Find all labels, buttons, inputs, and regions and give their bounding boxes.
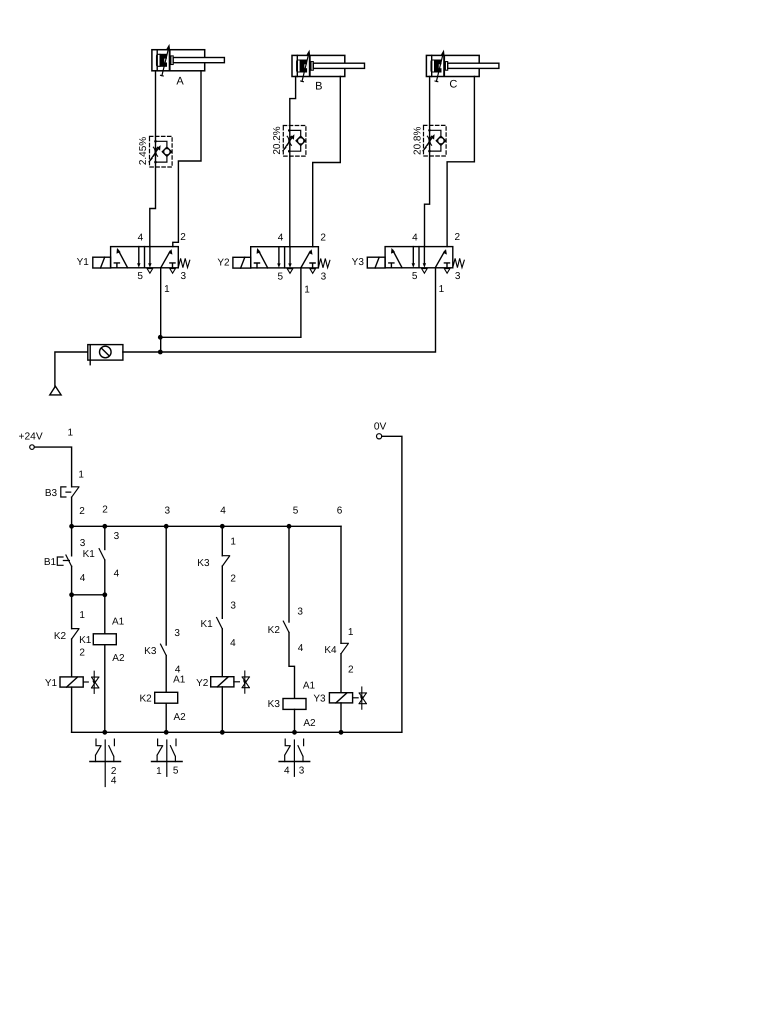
svg-text:4: 4 <box>278 232 284 243</box>
Y1 valve cross-reference <box>92 671 99 693</box>
svg-text:4: 4 <box>138 232 144 243</box>
wire Y2 to bottom bus <box>221 687 223 732</box>
Y3 link tick <box>353 697 359 699</box>
svg-text:4: 4 <box>111 776 117 787</box>
flow control valve B <box>283 126 306 157</box>
bus junction nodes <box>69 524 291 529</box>
svg-text:2.45%: 2.45% <box>138 137 149 165</box>
svg-text:3: 3 <box>299 766 305 777</box>
svg-text:1: 1 <box>230 537 236 548</box>
+24V terminal <box>19 432 43 450</box>
svg-text:K4: K4 <box>324 645 337 656</box>
wire contact to coil <box>165 656 167 693</box>
svg-text:4: 4 <box>284 766 290 777</box>
wire Y2 port 1 to manifold <box>160 268 301 337</box>
junction node <box>69 592 74 597</box>
svg-text:4: 4 <box>412 232 418 243</box>
svg-text:K2: K2 <box>54 631 67 642</box>
0V terminal <box>374 421 387 439</box>
svg-text:3: 3 <box>181 271 187 282</box>
svg-text:B1: B1 <box>44 557 57 568</box>
svg-text:B3: B3 <box>45 488 58 499</box>
wire Y3 port 1 to supply line <box>123 268 436 352</box>
wire K1 contact to coil <box>104 560 106 634</box>
svg-text:5: 5 <box>278 271 284 282</box>
svg-text:1: 1 <box>68 428 74 439</box>
svg-text:Y1: Y1 <box>45 678 58 689</box>
svg-text:2: 2 <box>180 232 186 243</box>
svg-text:2: 2 <box>79 647 85 658</box>
svg-text:Y1: Y1 <box>77 257 90 268</box>
svg-text:K3: K3 <box>197 558 210 569</box>
wire K4 to Y3 coil <box>340 654 342 693</box>
valve Y1 <box>77 232 190 295</box>
svg-text:C: C <box>449 78 457 90</box>
contact image K3 <box>279 739 310 777</box>
wire K1 to Y2 coil <box>221 629 223 677</box>
air source triangle <box>50 386 61 395</box>
wire bus to K3 contact <box>165 526 167 645</box>
svg-text:A2: A2 <box>112 653 125 664</box>
relay coil K2 <box>155 692 178 703</box>
svg-text:1: 1 <box>304 284 310 295</box>
svg-text:3: 3 <box>174 628 180 639</box>
wire Y1 port 1 down <box>160 268 162 352</box>
wire bus corner to K4 <box>340 526 342 643</box>
svg-text:1: 1 <box>79 610 85 621</box>
Y1 link tick <box>83 681 88 683</box>
svg-text:2: 2 <box>320 232 326 243</box>
svg-text:2: 2 <box>230 574 236 585</box>
wire B right port to Y2 port 2 <box>313 77 341 247</box>
svg-text:A2: A2 <box>173 712 186 723</box>
valve Y2 <box>217 232 330 295</box>
junction node <box>102 592 107 597</box>
svg-text:3: 3 <box>80 538 86 549</box>
svg-text:4: 4 <box>114 569 120 580</box>
wire K2 to Y1 coil <box>71 639 73 677</box>
svg-text:K1: K1 <box>83 549 96 560</box>
svg-text:1: 1 <box>348 627 354 638</box>
wire C right port to Y3 port 2 <box>447 77 474 247</box>
wire A right port to Y1 port 2 <box>173 71 201 247</box>
svg-text:5: 5 <box>293 505 299 516</box>
svg-text:20.2%: 20.2% <box>272 126 283 154</box>
wire bus to K2 contact <box>288 526 290 622</box>
svg-text:2: 2 <box>348 665 354 676</box>
svg-text:A1: A1 <box>303 681 316 692</box>
svg-text:K2: K2 <box>268 625 281 636</box>
wire A left port to flow valve to Y1 port 4 <box>150 71 156 247</box>
svg-text:Y3: Y3 <box>313 694 326 705</box>
relay coil K3 <box>283 699 306 710</box>
solenoid coil Y3 <box>329 693 352 703</box>
svg-text:K1: K1 <box>200 619 213 630</box>
bottom bus junction nodes <box>102 730 343 735</box>
svg-text:6: 6 <box>337 505 343 516</box>
contact K3 (NO) <box>161 644 167 655</box>
limit switch B1 (NO) <box>66 555 72 566</box>
cylinder C <box>426 50 499 82</box>
B1 actuator <box>57 557 69 565</box>
flow control valve C <box>423 125 446 156</box>
net labels above bus <box>79 505 343 517</box>
svg-text:Y3: Y3 <box>352 257 365 268</box>
svg-text:3: 3 <box>230 601 236 612</box>
svg-text:1: 1 <box>78 469 84 480</box>
svg-text:3: 3 <box>165 505 171 516</box>
contact K1 (NO) <box>217 618 223 629</box>
cylinder A <box>152 44 225 76</box>
svg-text:K3: K3 <box>268 699 281 710</box>
svg-text:5: 5 <box>412 271 418 282</box>
Y2 link tick <box>234 681 240 683</box>
svg-text:A: A <box>176 75 184 87</box>
wire bus to K3 NC <box>221 526 223 555</box>
svg-text:5: 5 <box>173 766 179 777</box>
wire coil to bottom bus <box>294 709 296 732</box>
svg-text:+24V: +24V <box>19 432 43 443</box>
svg-text:2: 2 <box>455 232 461 243</box>
wire C left port to flow valve to Y3 port 4 <box>425 77 430 247</box>
svg-text:2: 2 <box>79 506 85 517</box>
svg-text:Y2: Y2 <box>196 678 209 689</box>
svg-text:20.8%: 20.8% <box>412 127 423 155</box>
junction node <box>158 350 163 355</box>
Y3 valve cross-reference <box>359 687 366 709</box>
svg-text:Y2: Y2 <box>217 257 230 268</box>
contact K2 (NO) <box>283 621 289 632</box>
junction node <box>158 335 163 340</box>
svg-text:1: 1 <box>156 766 162 777</box>
wire B1 to junction <box>71 566 73 595</box>
limit switch B3 (NC) <box>72 487 79 497</box>
svg-text:5: 5 <box>137 271 143 282</box>
svg-text:3: 3 <box>297 607 303 618</box>
svg-text:A1: A1 <box>173 675 186 686</box>
cylinder B <box>292 50 365 82</box>
wire bus to K1 contact <box>104 526 106 549</box>
svg-text:0V: 0V <box>374 421 387 432</box>
svg-text:3: 3 <box>321 271 327 282</box>
wire supply to source <box>55 352 88 387</box>
wire coil to bottom bus <box>165 703 167 732</box>
relay coil K1 <box>93 634 116 645</box>
B3 actuator <box>61 487 71 497</box>
svg-text:3: 3 <box>114 531 120 542</box>
svg-text:4: 4 <box>80 573 86 584</box>
contact K1 (NO) <box>99 549 105 560</box>
wire coil to bottom bus <box>104 645 106 733</box>
air service unit <box>88 345 123 365</box>
solenoid coil Y2 <box>211 677 234 687</box>
svg-text:K2: K2 <box>139 693 152 704</box>
contact K2 (NC) <box>72 629 79 639</box>
contact K3 (NC) <box>222 556 229 566</box>
wire junction link <box>72 594 105 596</box>
wire B3 to bus <box>71 497 73 526</box>
wire Y1 to bottom bus <box>71 687 73 732</box>
svg-text:3: 3 <box>455 271 461 282</box>
wire Y3 to bottom bus <box>340 703 342 732</box>
bottom bus wire to 0V <box>72 436 402 732</box>
wire K2 to K3 coil with jog <box>289 633 295 699</box>
Y2 valve cross-reference <box>242 671 249 693</box>
contact K4 (NC) <box>341 643 348 653</box>
svg-text:K3: K3 <box>144 646 157 657</box>
flow control valve A <box>149 136 172 167</box>
svg-text:4: 4 <box>230 638 236 649</box>
wire B left port to flow valve to Y2 port 4 <box>290 77 296 247</box>
contact image K1 <box>90 739 121 787</box>
svg-text:1: 1 <box>164 284 170 295</box>
svg-text:B: B <box>315 81 322 93</box>
svg-text:A1: A1 <box>112 617 125 628</box>
solenoid coil Y1 <box>60 677 83 687</box>
valve Y3 <box>352 232 465 295</box>
svg-text:2: 2 <box>102 505 108 516</box>
wire +24V to B3 <box>34 447 71 487</box>
contact image K2 <box>152 739 183 777</box>
top bus wire <box>72 525 341 527</box>
wire K3 to K1 <box>221 566 223 618</box>
wire to K2 contact <box>71 595 73 629</box>
svg-text:4: 4 <box>220 505 226 516</box>
svg-text:A2: A2 <box>303 718 316 729</box>
svg-text:1: 1 <box>439 284 445 295</box>
wire bus to B1 <box>71 526 73 556</box>
svg-text:4: 4 <box>298 643 304 654</box>
svg-text:K1: K1 <box>79 635 92 646</box>
